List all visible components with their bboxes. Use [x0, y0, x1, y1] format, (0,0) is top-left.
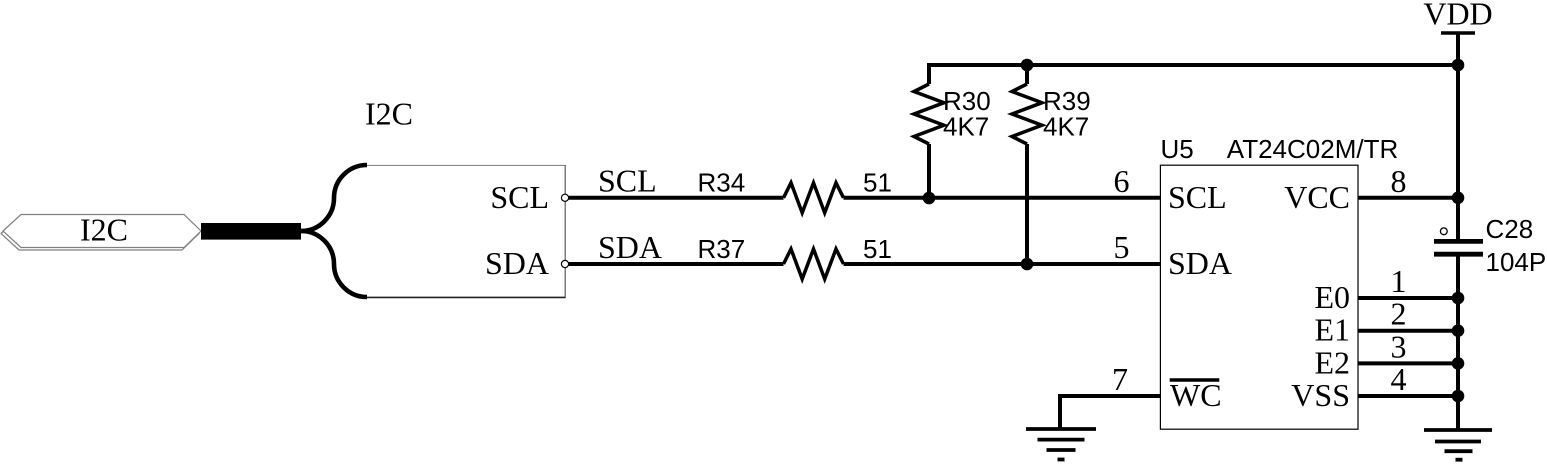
capacitor C28 designator — [1486, 214, 1534, 244]
junction VCC-rail — [1452, 192, 1465, 205]
pin wire E0 — [1358, 296, 1458, 300]
pin number 8 — [1391, 163, 1407, 199]
pin name WC overline — [1170, 378, 1220, 381]
resistor R39 — [1012, 84, 1042, 144]
svg-text:I2C: I2C — [365, 96, 413, 132]
junction rail-R39 — [1021, 59, 1034, 72]
harness pin name SCL — [490, 179, 549, 215]
port connector I2C (sheet-entry hexagon shadow) — [1, 217, 199, 250]
pin name E1 — [1314, 312, 1350, 348]
resistor R34 — [784, 183, 844, 213]
wire SDA left segment — [569, 262, 784, 266]
harness pin name SDA — [485, 245, 549, 281]
svg-text:E2: E2 — [1314, 344, 1350, 380]
harness pin circle SCL — [561, 194, 568, 201]
svg-text:SCL: SCL — [1168, 179, 1227, 215]
resistor R30 designator — [943, 86, 991, 116]
ground symbol left — [1026, 429, 1096, 460]
pin name E2 — [1314, 344, 1350, 380]
pin number 4 — [1391, 361, 1407, 397]
svg-text:AT24C02M/TR: AT24C02M/TR — [1227, 134, 1398, 164]
svg-text:6: 6 — [1114, 163, 1130, 199]
port connector I2C (sheet-entry hexagon) — [3, 215, 201, 248]
svg-text:WC: WC — [1170, 377, 1222, 413]
svg-text:1: 1 — [1391, 263, 1407, 299]
junction E1-rail — [1452, 324, 1465, 337]
wire SCL right segment — [844, 196, 1162, 200]
wire SDA right segment — [844, 262, 1162, 266]
pin wire WC to ground — [1060, 396, 1161, 429]
harness pin circle SDA — [561, 260, 568, 267]
capacitor C28 — [1434, 228, 1483, 254]
IC part number AT24C02M/TR — [1227, 134, 1398, 164]
net name I2C in port — [80, 212, 128, 248]
wire R30 bottom lead — [927, 144, 931, 198]
pin number 5 — [1114, 229, 1130, 265]
svg-text:51: 51 — [863, 234, 892, 264]
svg-text:4K7: 4K7 — [1043, 111, 1089, 141]
ground symbol right — [1424, 430, 1492, 460]
pin number 2 — [1391, 296, 1407, 332]
svg-text:8: 8 — [1391, 163, 1407, 199]
svg-text:R34: R34 — [698, 168, 746, 198]
svg-text:C28: C28 — [1486, 214, 1534, 244]
svg-text:R37: R37 — [698, 234, 746, 264]
net label SCL — [598, 163, 657, 199]
wire R30 top lead — [927, 63, 931, 84]
capacitor C28 value 104P — [1486, 247, 1547, 277]
harness body box — [367, 165, 566, 298]
pin name WC — [1170, 377, 1222, 413]
junction SCL-R30 — [923, 192, 936, 205]
pin number 7 — [1112, 361, 1128, 397]
port label I2C — [365, 96, 413, 132]
svg-text:SCL: SCL — [598, 163, 657, 199]
svg-text:104P: 104P — [1486, 247, 1547, 277]
pin wire E2 — [1358, 361, 1458, 365]
wire harness upper curve — [301, 165, 367, 231]
svg-text:SDA: SDA — [1168, 245, 1232, 281]
power label VDD — [1423, 0, 1492, 32]
junction VSS-rail — [1452, 390, 1465, 403]
pin name VSS — [1291, 377, 1350, 413]
svg-text:SDA: SDA — [598, 229, 662, 265]
ground rail vertical lower segment — [1456, 254, 1460, 430]
svg-text:I2C: I2C — [80, 212, 128, 248]
wire R39 bottom lead to SDA — [1025, 144, 1029, 264]
bus wire (thick bar) — [201, 223, 301, 240]
VDD rail vertical upper segment — [1456, 65, 1460, 242]
resistor R30 value 4K7 — [943, 111, 989, 141]
svg-text:4: 4 — [1391, 361, 1407, 397]
resistor R34 designator — [698, 168, 746, 198]
resistor R34 value 51 — [863, 168, 892, 198]
wire SCL left segment — [569, 196, 784, 200]
svg-text:VDD: VDD — [1423, 0, 1492, 32]
resistor R37 designator — [698, 234, 746, 264]
svg-text:5: 5 — [1114, 229, 1130, 265]
svg-text:VCC: VCC — [1284, 179, 1350, 215]
svg-text:SDA: SDA — [485, 245, 549, 281]
resistor R37 — [784, 249, 844, 279]
junction E2-rail — [1452, 357, 1465, 370]
svg-text:7: 7 — [1112, 361, 1128, 397]
resistor R39 designator — [1043, 86, 1091, 116]
VDD rail horizontal wire — [927, 63, 1458, 67]
IC U5 body — [1160, 165, 1358, 429]
IC designator U5 — [1161, 134, 1194, 164]
svg-text:51: 51 — [863, 168, 892, 198]
resistor R37 value 51 — [863, 234, 892, 264]
junction rail-VDD — [1452, 59, 1465, 72]
power symbol VDD — [1441, 33, 1475, 65]
wire harness lower curve — [301, 231, 367, 297]
pin number 6 — [1114, 163, 1130, 199]
resistor R39 value 4K7 — [1043, 111, 1089, 141]
pin wire E1 — [1358, 329, 1458, 333]
pin name E0 — [1314, 279, 1350, 315]
pin number 1 — [1391, 263, 1407, 299]
pin name VCC — [1284, 179, 1350, 215]
svg-text:E1: E1 — [1314, 312, 1350, 348]
svg-text:SCL: SCL — [490, 179, 549, 215]
svg-text:2: 2 — [1391, 296, 1407, 332]
pin name SCL — [1168, 179, 1227, 215]
pin number 3 — [1391, 328, 1407, 364]
svg-text:4K7: 4K7 — [943, 111, 989, 141]
svg-text:U5: U5 — [1161, 134, 1194, 164]
svg-text:E0: E0 — [1314, 279, 1350, 315]
net label SDA — [598, 229, 662, 265]
pin name SDA — [1168, 245, 1232, 281]
wire R39 top lead — [1025, 63, 1029, 84]
svg-text:VSS: VSS — [1291, 377, 1350, 413]
resistor R30 — [914, 84, 944, 144]
junction SDA-R39 — [1021, 258, 1034, 271]
junction E0-rail — [1452, 292, 1465, 305]
svg-text:3: 3 — [1391, 328, 1407, 364]
pin wire VCC — [1358, 196, 1458, 200]
pin wire VSS — [1358, 394, 1458, 398]
